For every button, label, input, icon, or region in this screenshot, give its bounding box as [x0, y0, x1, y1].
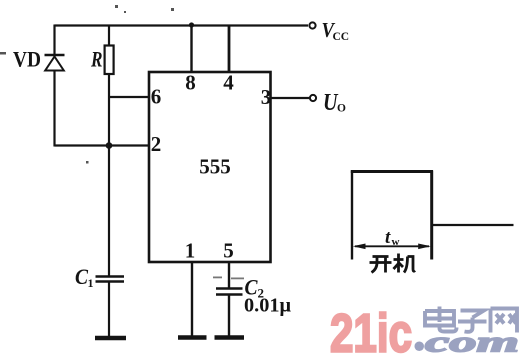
- svg-text:21ic: 21ic: [330, 304, 412, 356]
- svg-text:w: w: [392, 236, 400, 248]
- svg-text:5: 5: [223, 239, 234, 263]
- svg-text:VD: VD: [13, 47, 41, 72]
- wire: pin 8 vertical drop: [190, 24, 192, 72]
- dimension arrow tw: [353, 244, 431, 250]
- watermark glyph WANG: [491, 309, 518, 333]
- label C2: [245, 275, 265, 301]
- svg-text:C: C: [75, 264, 88, 289]
- wire: R top: [108, 25, 110, 46]
- capacitor C2 plates: [216, 289, 243, 295]
- ground: under C2: [215, 335, 245, 340]
- label tw: [385, 227, 400, 248]
- diode VD cathode bar: [45, 54, 65, 57]
- wire: pin 6 horizontal: [109, 96, 150, 98]
- speck noise: [0, 5, 244, 279]
- svg-text:3: 3: [261, 85, 272, 109]
- wire: C1 to ground: [108, 283, 110, 337]
- watermark glyph ZI: [458, 311, 487, 332]
- svg-text:8: 8: [185, 71, 196, 95]
- svg-text:0.01μ: 0.01μ: [244, 295, 292, 317]
- wire: pin 5 upper: [228, 262, 230, 288]
- svg-text:4: 4: [223, 71, 234, 95]
- diode VD triangle: [45, 57, 64, 71]
- svg-text:O: O: [337, 103, 346, 115]
- waveform: low-level baseline: [433, 224, 514, 226]
- svg-text:t: t: [385, 227, 391, 248]
- wire: pin 3 output: [271, 97, 310, 99]
- label Uo: [323, 90, 346, 116]
- glyph JI: [394, 254, 416, 273]
- ground: under pin 1: [178, 335, 207, 340]
- resistor R body: [105, 46, 114, 75]
- svg-text:CC: CC: [333, 31, 350, 43]
- wire: C2 to ground: [228, 295, 230, 336]
- capacitor C1 plates: [96, 277, 125, 282]
- svg-text:1: 1: [88, 276, 94, 290]
- terminal Uo: [310, 95, 316, 101]
- watermark glyph DIAN: [425, 307, 457, 332]
- svg-text:6: 6: [151, 85, 162, 109]
- junction: top rail to pin 8 drop: [189, 22, 194, 27]
- svg-text:R: R: [90, 47, 102, 72]
- label Vcc: [322, 18, 350, 43]
- svg-text:2: 2: [151, 132, 162, 156]
- waveform: pulse left edge: [351, 171, 353, 260]
- ground: under C1: [95, 336, 126, 341]
- glyph KAI: [370, 257, 392, 273]
- watermark dot: [415, 342, 425, 352]
- wire: left vertical lower (diode to pin2 corner): [53, 71, 55, 147]
- terminal Vcc: [309, 22, 315, 28]
- junction: R branch on pin-2 wire: [106, 142, 113, 149]
- svg-text:1: 1: [185, 239, 196, 263]
- waveform: pulse right edge: [430, 171, 433, 260]
- label kai-ji (Chinese: power-on): [370, 254, 416, 273]
- label C1: [75, 264, 94, 290]
- waveform: pulse top edge: [351, 170, 433, 173]
- IC 555 box: [149, 72, 271, 262]
- wire: left vertical upper (to diode cathode): [53, 25, 55, 56]
- wire: top Vcc rail: [55, 24, 309, 26]
- wire: pin 1 to ground: [191, 262, 193, 336]
- wire: pin 4 vertical drop: [228, 25, 231, 73]
- wire: R bottom down to C1: [108, 74, 110, 276]
- svg-text:com: com: [425, 326, 519, 356]
- wire: pin 2 horizontal: [55, 144, 151, 146]
- svg-text:555: 555: [199, 155, 231, 179]
